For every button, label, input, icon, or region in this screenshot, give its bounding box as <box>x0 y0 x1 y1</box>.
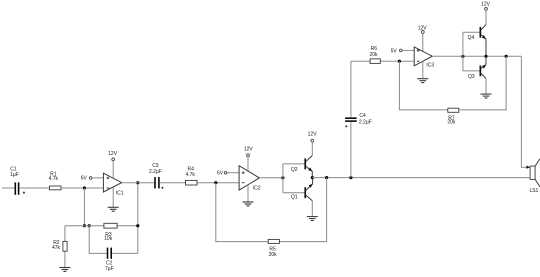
wire feedback node row <box>65 225 138 227</box>
wire 12V to Q4 collector <box>485 10 487 24</box>
wire 12V to Q2 collector <box>311 142 313 156</box>
arrow into speaker <box>526 166 530 169</box>
wire node row down to R2 <box>64 226 66 268</box>
wire base bus vertical <box>282 164 284 193</box>
resistor R2 <box>63 241 67 251</box>
wire Q3 emitter down <box>485 79 487 95</box>
svg-text:LS1: LS1 <box>529 188 538 194</box>
node 6V terminal IC2 <box>217 170 227 176</box>
wire IC1 bottom to ground <box>112 187 114 207</box>
capacitor C3 <box>154 177 163 189</box>
label R6 value <box>369 46 378 58</box>
junction base bus Q3 Q4 <box>461 55 464 58</box>
resistor R4 <box>186 180 198 185</box>
junction at feedback row left <box>83 224 86 227</box>
svg-text:Q3: Q3 <box>468 74 475 80</box>
wire input lead to C1 <box>2 187 15 189</box>
wire C2 right to output drop <box>112 252 138 254</box>
svg-text:IC3: IC3 <box>426 63 434 69</box>
label R4 value <box>185 166 195 178</box>
svg-text:Q2: Q2 <box>291 167 298 173</box>
svg-text:6V: 6V <box>81 176 88 182</box>
node 12V terminal IC1 <box>108 151 118 161</box>
svg-text:2.2µF: 2.2µF <box>359 119 372 125</box>
node 12V terminal Q2 <box>308 131 318 142</box>
wire base bus vertical Q3 Q4 <box>462 32 464 71</box>
node 6V terminal IC1 <box>81 176 92 182</box>
wire output node to speaker top <box>521 56 528 167</box>
wire IC1 input node down to feedback row <box>83 188 85 226</box>
node 12V terminal Q4 <box>481 1 491 10</box>
resistor R6 <box>370 59 380 64</box>
wire C4 branch upper <box>350 61 352 117</box>
wire IC2 output to base bus <box>259 177 283 179</box>
svg-text:5V: 5V <box>391 49 398 55</box>
wire 12V to IC2 top <box>247 157 249 171</box>
wire 6V to IC2 + input <box>227 172 239 174</box>
ground below IC3 <box>417 79 428 83</box>
label C1 value <box>10 167 19 179</box>
svg-text:4.7k: 4.7k <box>185 172 195 178</box>
transistor Q3 <box>480 56 487 78</box>
svg-text:2.2µF: 2.2µF <box>149 169 162 175</box>
wire R1 to IC1 inverting input <box>61 187 103 189</box>
wire C1 to R1 <box>19 187 49 189</box>
svg-text:12V: 12V <box>308 131 318 137</box>
op-amp IC1 <box>103 173 121 192</box>
wire IC3 bottom to ground <box>422 61 424 78</box>
wire C3 to R4 to IC2 <box>160 182 239 184</box>
svg-text:6V: 6V <box>217 170 224 176</box>
wire Q3 base stub <box>463 70 480 72</box>
wire C4 branch lower <box>350 122 352 178</box>
svg-text:IC2: IC2 <box>253 186 261 192</box>
ground below R2 <box>59 268 70 272</box>
capacitor C2 <box>107 248 112 259</box>
wire R5 loop <box>216 178 327 242</box>
label R3 value <box>104 232 113 242</box>
svg-text:20k: 20k <box>369 52 378 58</box>
node 12V terminal IC2 <box>244 147 254 157</box>
wire IC1 output to C3 <box>122 182 155 184</box>
wire Q1 emitter down <box>311 201 313 217</box>
transistor Q4 <box>480 25 487 57</box>
label C4 value <box>359 113 372 125</box>
svg-text:12V: 12V <box>244 147 254 153</box>
ground below Q1 <box>307 217 318 221</box>
svg-text:12V: 12V <box>481 1 491 7</box>
resistor R7 <box>448 108 459 112</box>
resistor R1 <box>50 186 62 190</box>
node 12V terminal IC3 <box>418 25 428 33</box>
transistor Q1 <box>304 178 312 201</box>
svg-text:7µF: 7µF <box>105 266 114 272</box>
junction R7 feedback tap <box>505 55 508 58</box>
node junction at IC1 input <box>83 186 86 189</box>
wire Q1 base stub <box>283 192 305 194</box>
junction C4 tap <box>349 176 352 179</box>
svg-text:C4: C4 <box>359 113 366 119</box>
ground below IC1 <box>108 207 119 211</box>
node 5V terminal IC3 <box>391 49 402 55</box>
junction base bus <box>281 176 284 179</box>
wire 6V to IC1 + input <box>92 177 103 179</box>
resistor R5 <box>268 239 279 243</box>
speaker LS1 <box>530 159 540 187</box>
wire 5V to IC3 + input <box>402 49 414 51</box>
junction R5 feedback tap <box>325 176 328 179</box>
wire IC2 bottom to ground <box>247 185 249 202</box>
ground below Q3 <box>481 94 492 98</box>
label R1 value <box>49 171 59 182</box>
wire R7 feedback loop <box>399 56 506 110</box>
junction IC3 inverting node <box>398 60 401 63</box>
transistor Q2 <box>304 156 312 178</box>
junction Q4 Q3 output node <box>484 55 487 58</box>
svg-text:47k: 47k <box>52 245 61 251</box>
wire 12V to IC3 top <box>422 33 424 51</box>
capacitor C1 <box>15 182 26 194</box>
wire IC3 output row <box>432 55 521 57</box>
wire IC1 output drop down <box>137 183 139 254</box>
resistor R3 <box>104 223 117 228</box>
op-amp IC3 <box>414 47 432 66</box>
wire 12V to IC1 top <box>112 161 114 178</box>
svg-text:10k: 10k <box>104 236 113 242</box>
svg-text:20k: 20k <box>269 252 278 258</box>
wire R6 row <box>351 60 414 62</box>
svg-text:Q4: Q4 <box>468 35 475 41</box>
wire Q4 base stub <box>463 31 480 33</box>
junction C2 branch <box>88 224 91 227</box>
label R5 value <box>269 246 278 258</box>
ground below IC2 <box>243 202 254 206</box>
wire main output row to speaker <box>312 177 530 179</box>
label C2 value <box>105 261 114 272</box>
wire C2 left branch <box>89 226 107 254</box>
junction IC2 inverting node <box>214 181 217 184</box>
svg-text:IC1: IC1 <box>116 190 124 196</box>
svg-text:12V: 12V <box>108 151 118 157</box>
junction IC1 output <box>136 181 139 184</box>
svg-text:Q1: Q1 <box>291 195 298 201</box>
capacitor C4 <box>345 117 357 127</box>
svg-text:1µF: 1µF <box>10 172 19 178</box>
wire Q2 base stub <box>283 163 305 165</box>
label R2 value <box>52 240 61 251</box>
svg-text:20k: 20k <box>447 120 456 126</box>
junction output node Q1 Q2 <box>311 176 314 179</box>
label C3 value <box>149 163 162 175</box>
op-amp IC2 <box>239 166 259 190</box>
junction R3 right <box>136 224 139 227</box>
label R7 value <box>447 115 456 125</box>
svg-text:4.7k: 4.7k <box>49 176 59 182</box>
